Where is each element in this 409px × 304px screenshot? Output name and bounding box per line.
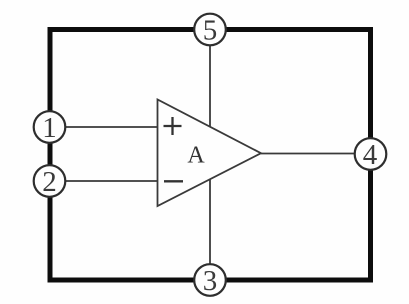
svg-text:2: 2 bbox=[42, 166, 57, 198]
svg-text:3: 3 bbox=[203, 265, 218, 297]
svg-text:A: A bbox=[187, 143, 205, 169]
svg-text:4: 4 bbox=[363, 139, 378, 171]
svg-text:1: 1 bbox=[42, 112, 57, 144]
svg-text:5: 5 bbox=[203, 15, 218, 47]
